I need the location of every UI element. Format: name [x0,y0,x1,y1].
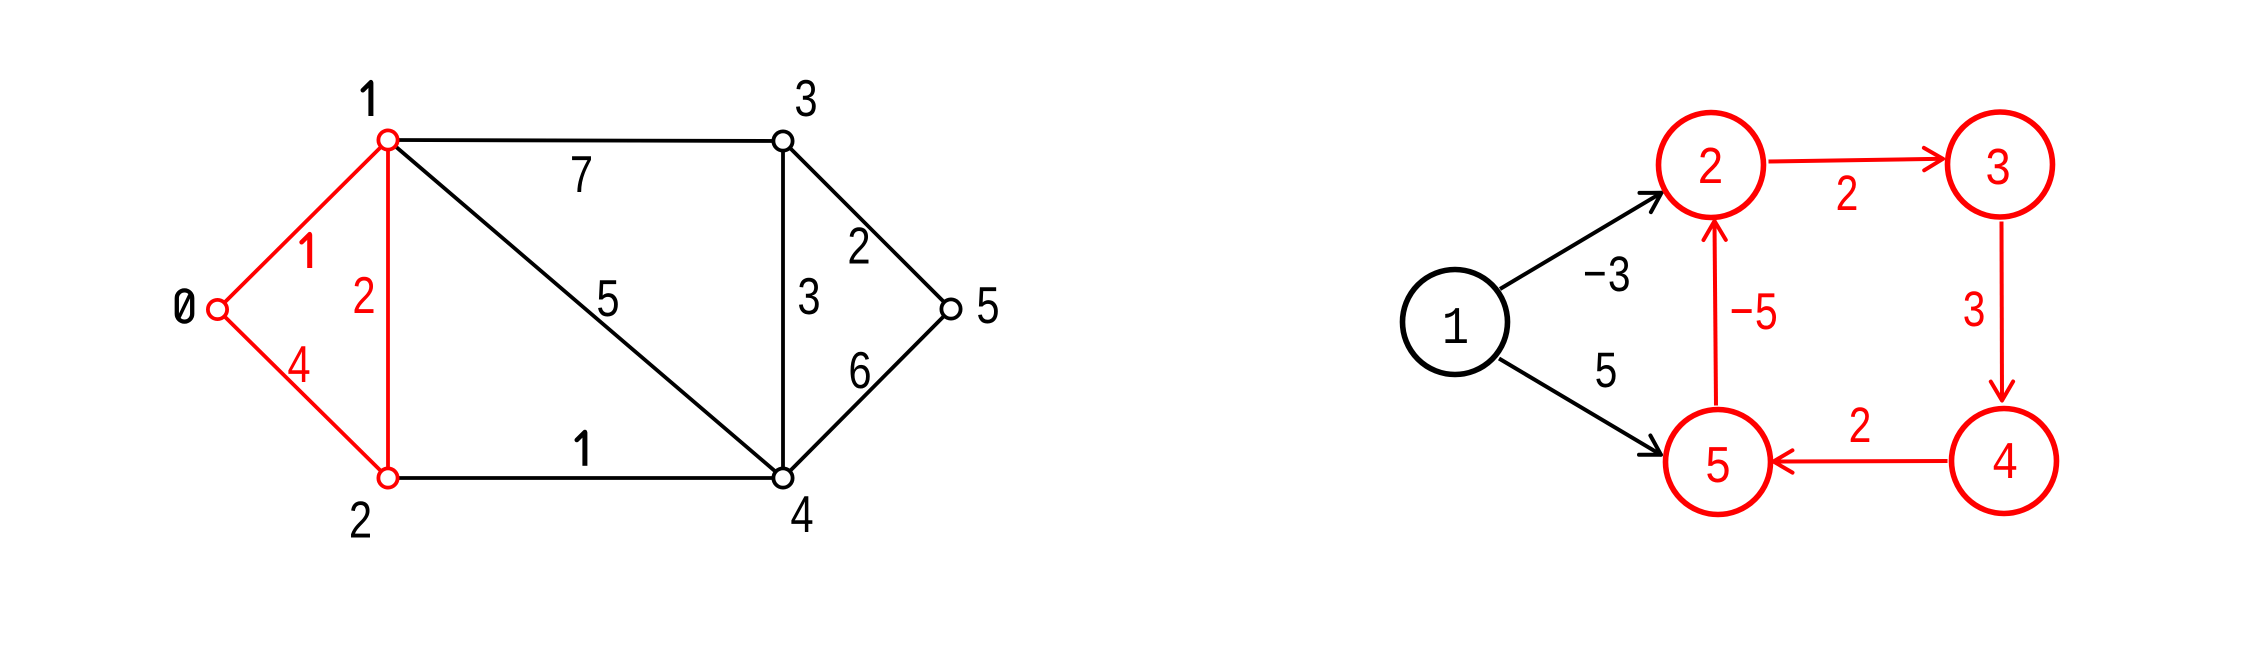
node digit 5 [1707,447,1728,482]
wire edge 3-5 [783,141,951,309]
weight label 5 on edge 1-4 [598,280,618,316]
arrow edge 1->5 weight 5 [1499,359,1661,455]
node 4 [773,468,792,487]
node label 5 [978,287,998,323]
wire edge 0-2 (red) [218,310,389,479]
weight label 2 on edge 3-5 [850,227,869,263]
wire edge 1-4 [388,140,783,478]
weight label 3 on edge 3-4 [799,278,819,315]
node 2 [378,468,397,487]
wire edge 1-3 [388,140,783,141]
arrow edge 2->3 weight 2 (red) [1769,148,1944,170]
node digit 2 [1700,148,1721,183]
weight label 2 on edge 4->5 (red) [1851,407,1870,442]
node digit 4 [1994,443,2016,478]
node 0 [208,300,227,319]
weight label 6 on edge 4-5 [851,352,870,389]
weight label 1 on edge 0-1 (red) [302,234,310,268]
arrow edge 4->5 weight 2 (red) [1774,450,1948,472]
node 1 (right graph) [1403,270,1508,375]
weight label 2 on edge 2->3 (red) [1838,175,1857,210]
weight label 4 on edge 0-2 (red) [288,346,309,382]
node label 3 [796,80,816,117]
weight label 3 on edge 3->4 (red) [1964,291,1983,326]
weight label 7 on edge 1-3 [572,156,591,192]
weight label 1 on edge 2-4 [577,432,585,466]
node 5 [941,299,960,318]
arrow edge 5->2 weight -5 (red) [1704,221,1726,406]
node 1 [378,130,397,149]
node 4 (right graph) [1952,409,2057,514]
node digit 1 [1445,308,1467,343]
node label 1 [363,82,371,116]
weight label -3 on edge 1->2 [1585,256,1629,291]
node 5 (right graph) [1666,410,1771,515]
node 3 [773,131,792,150]
arrow edge 1->2 weight -3 [1500,193,1662,289]
node label 0 (slashed zero) [177,290,192,321]
node 2 (right graph) [1659,113,1764,218]
wire edge 3-4 [781,141,785,478]
node label 2 [351,501,370,537]
arrow edge 3->4 weight 3 (red) [1991,222,2013,401]
weight label 2 on edge 1-2 (red) [355,277,374,313]
wire edge 2-4 [388,476,783,480]
weight label -5 on edge 5->2 (red) [1732,293,1776,329]
wire edge 0-1 (red) [218,140,389,310]
node 3 (right graph) [1948,112,2053,217]
node digit 3 [1987,149,2008,185]
wire edge 1-2 (red) [386,140,390,478]
node label 4 [791,496,812,532]
wire edge 4-5 [783,309,951,478]
weight label 5 on edge 1->5 [1596,353,1615,388]
